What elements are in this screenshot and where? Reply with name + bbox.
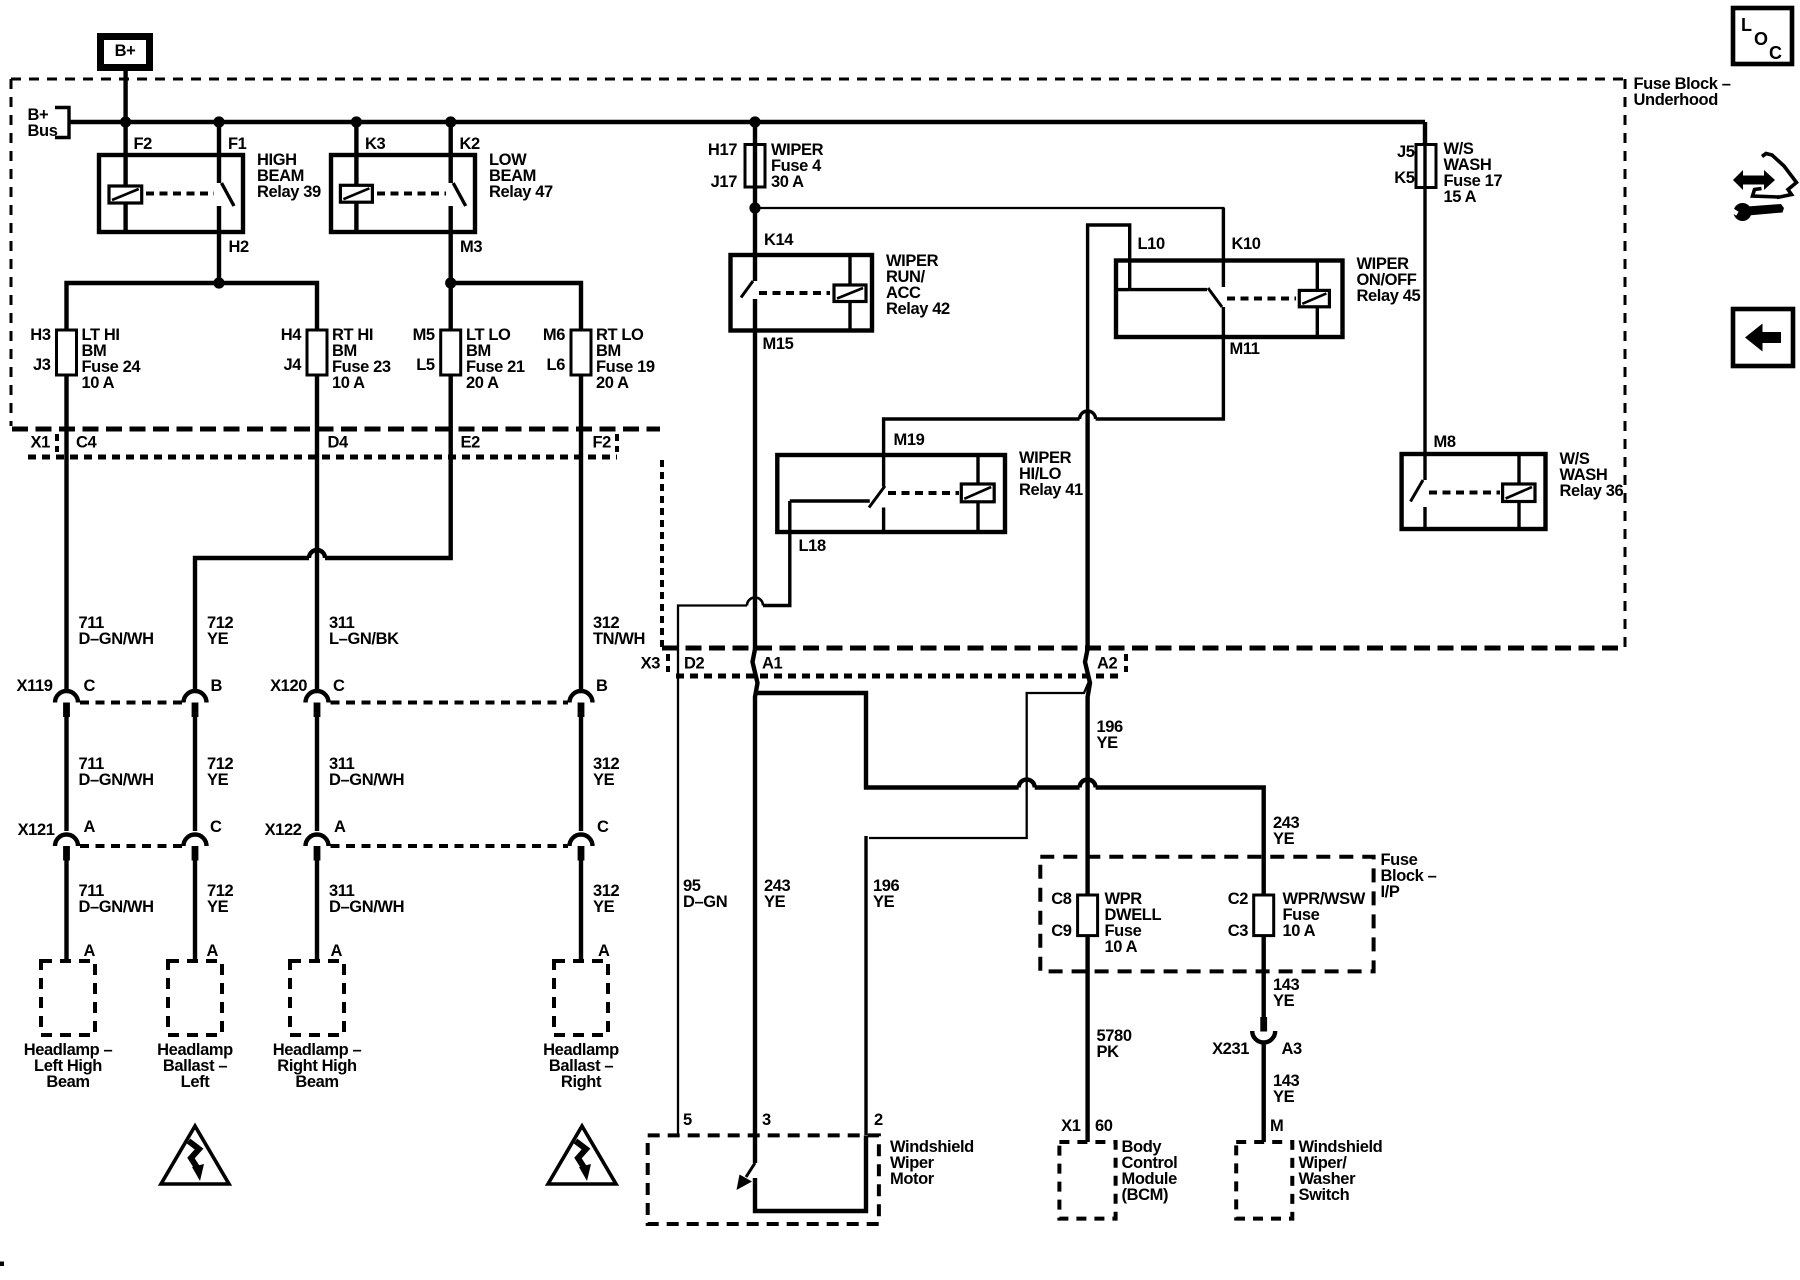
svg-text:J17: J17 <box>711 173 738 191</box>
wire 311 segment 3 <box>315 860 319 961</box>
svg-text:J3: J3 <box>33 356 51 374</box>
svg-text:YE: YE <box>764 893 786 911</box>
relay 41 lower contact stub <box>882 508 885 533</box>
svg-text:Relay 41: Relay 41 <box>1019 481 1083 499</box>
connector X3 row lower dashed line <box>676 674 1120 679</box>
svg-text:A: A <box>331 942 343 960</box>
svg-text:YE: YE <box>207 630 229 648</box>
svg-text:10 A: 10 A <box>332 374 365 392</box>
wire 143 YE (X231 to switch M) <box>1261 1041 1265 1142</box>
svg-text:B: B <box>596 677 608 695</box>
wire 712 segment 2 <box>193 717 197 832</box>
svg-text:C: C <box>333 677 345 695</box>
svg-text:YE: YE <box>1273 1088 1295 1106</box>
junction F2 on bus <box>120 116 131 127</box>
svg-text:D2: D2 <box>684 655 705 673</box>
junction F1 on bus <box>213 116 224 127</box>
svg-text:D–GN/WH: D–GN/WH <box>329 898 404 916</box>
svg-text:Beam: Beam <box>295 1073 338 1091</box>
svg-text:Relay 42: Relay 42 <box>886 300 950 318</box>
B+ bus bracket <box>55 108 69 138</box>
relay 45 coil <box>1316 261 1319 291</box>
relay 36 switch blade <box>1411 480 1424 502</box>
relay 36 coil-switch dashed link <box>1429 491 1500 495</box>
svg-text:O: O <box>1754 29 1768 49</box>
component Body Control Module (BCM) <box>1059 1142 1115 1219</box>
svg-text:M19: M19 <box>894 431 925 449</box>
junction M3 tee <box>445 277 456 288</box>
component Windshield Wiper Motor box <box>648 1135 879 1224</box>
svg-text:D–GN/WH: D–GN/WH <box>329 771 404 789</box>
wire A2 branch to wiper motor 2 <box>869 679 1090 838</box>
svg-text:YE: YE <box>873 893 895 911</box>
relay 36 lower contact stub <box>1423 507 1426 529</box>
wire 95 D-GN (D2 to wiper motor 5) <box>677 649 679 1135</box>
svg-text:Underhood: Underhood <box>1634 91 1718 109</box>
svg-text:10 A: 10 A <box>82 374 115 392</box>
fuse F4 WIPER <box>745 145 765 188</box>
wire 312 circuit column (F2 down) <box>579 375 583 691</box>
svg-text:F1: F1 <box>228 135 247 153</box>
svg-text:M3: M3 <box>460 238 482 256</box>
fuse WPR/WSW 10A <box>1254 895 1274 936</box>
svg-text:A1: A1 <box>762 655 783 673</box>
svg-text:M15: M15 <box>763 335 794 353</box>
relay 41 coil-switch dashed link <box>888 491 959 495</box>
junction wiper-fuse feed on bus <box>749 116 760 127</box>
svg-text:Switch: Switch <box>1299 1186 1350 1204</box>
wire 712 segment 3 <box>193 860 197 961</box>
svg-text:D–GN/WH: D–GN/WH <box>79 630 154 648</box>
connector X121 pin A <box>55 835 78 847</box>
svg-text:C9: C9 <box>1051 922 1072 940</box>
svg-text:K3: K3 <box>365 135 386 153</box>
svg-text:C: C <box>597 818 609 836</box>
svg-text:L–GN/BK: L–GN/BK <box>329 630 399 648</box>
B+ bus wire <box>69 120 1425 124</box>
svg-text:M6: M6 <box>543 326 565 344</box>
svg-text:H4: H4 <box>281 326 303 344</box>
wire A1 branch to WPR/WSW fuse <box>757 693 1019 788</box>
svg-text:X119: X119 <box>16 677 52 695</box>
relay 42 coil-switch dashed link <box>759 291 830 295</box>
wire L10 (relay 45 to A2 net) <box>1088 225 1130 412</box>
connector X119 dashed link <box>80 701 182 705</box>
svg-text:Relay 39: Relay 39 <box>257 183 321 201</box>
Fuse Block - I/P dashed border <box>1040 857 1373 972</box>
svg-text:X3: X3 <box>641 655 661 673</box>
wire B+ terminal to bus <box>123 71 127 122</box>
svg-text:J5: J5 <box>1397 143 1415 161</box>
relay 45 switch blade <box>1208 288 1222 307</box>
wire H2 (relay 39 to headlamp feed) <box>217 206 221 283</box>
wire 711 segment 3 <box>64 860 68 961</box>
wire H2 distribution (C4/D4 columns) <box>67 283 318 330</box>
relay U42 WIPER RUN/ACC box <box>731 255 873 331</box>
svg-text:TN/WH: TN/WH <box>593 630 645 648</box>
svg-text:F2: F2 <box>134 135 153 153</box>
svg-text:(BCM): (BCM) <box>1122 1186 1169 1204</box>
relay 41 coil <box>976 455 979 484</box>
connector X121 pin C <box>184 835 207 847</box>
svg-text:I/P: I/P <box>1381 883 1400 901</box>
svg-text:YE: YE <box>207 898 229 916</box>
fuse block border corner at X1 row <box>660 460 664 648</box>
wire 311 circuit column (D4 down) <box>315 375 319 691</box>
junction K3 on bus <box>351 116 362 127</box>
relay 39 switch blade <box>222 183 235 206</box>
relay 42 coil <box>848 255 851 285</box>
fuse F17 W/S WASH <box>1416 145 1436 188</box>
junction wiper fuse output <box>749 202 760 213</box>
Fuse Block - Underhood dashed border right <box>1624 79 1627 649</box>
svg-text:M5: M5 <box>413 326 435 344</box>
icon LOC box <box>1733 8 1792 64</box>
svg-text:A2: A2 <box>1097 655 1118 673</box>
battery positive terminal B+ <box>101 37 150 68</box>
relay 47 switch blade <box>453 183 466 206</box>
svg-text:E2: E2 <box>461 434 481 452</box>
relay U41 WIPER HI/LO box <box>777 455 1005 532</box>
wire 312 segment 2 <box>579 717 583 832</box>
svg-text:J4: J4 <box>283 356 302 374</box>
wire bus to W/S wash fuse <box>1423 122 1427 146</box>
relay 39 coil <box>109 186 142 203</box>
fuse WPR DWELL 10A <box>1078 895 1098 936</box>
fuse F23 RT HI BM <box>307 330 327 375</box>
svg-text:C8: C8 <box>1051 890 1072 908</box>
component Headlamp - Right High Beam <box>290 961 344 1035</box>
Fuse Block - Underhood dashed border top <box>11 78 1625 81</box>
fuse F21 LT LO BM <box>441 330 461 375</box>
svg-text:F2: F2 <box>593 434 612 452</box>
svg-text:X1: X1 <box>31 434 51 452</box>
component Headlamp Ballast - Right <box>554 961 608 1035</box>
wire 312 segment 3 <box>579 860 583 961</box>
svg-text:Relay 47: Relay 47 <box>489 183 553 201</box>
svg-text:D4: D4 <box>328 434 350 452</box>
component Windshield Wiper/Washer Switch <box>1236 1142 1292 1219</box>
connector X122 pin C <box>570 835 593 847</box>
connector X122 dashed link <box>331 844 569 848</box>
relay 47 coil <box>340 185 372 202</box>
svg-text:L: L <box>1741 15 1752 35</box>
svg-text:X1: X1 <box>1061 1117 1081 1135</box>
wire J17 to K10 (relay 45 feed) <box>755 208 1223 261</box>
component Headlamp Ballast - Left <box>168 961 222 1035</box>
svg-text:X231: X231 <box>1212 1040 1249 1058</box>
connector X3 row upper dashed line <box>662 646 1625 651</box>
svg-text:Bus: Bus <box>28 122 58 140</box>
svg-text:K2: K2 <box>460 135 481 153</box>
svg-text:C: C <box>1769 43 1782 63</box>
svg-text:C: C <box>84 677 96 695</box>
svg-text:C3: C3 <box>1228 922 1249 940</box>
wire 711 segment 2 <box>64 717 68 832</box>
svg-text:YE: YE <box>1273 992 1295 1010</box>
wire M3 (relay 47 to headlamp feed) <box>449 206 453 330</box>
wire K3 (bus to relay 47 coil) <box>354 122 358 185</box>
icon back arrow box <box>1733 309 1793 366</box>
wire 5780 PK (to BCM) <box>1085 936 1089 1142</box>
svg-text:C2: C2 <box>1228 890 1249 908</box>
svg-text:X120: X120 <box>270 677 307 695</box>
wire K2 (bus to relay 47 switch) <box>449 122 453 183</box>
svg-text:K14: K14 <box>764 231 794 249</box>
wire 143 YE (fuse C3 down) <box>1261 936 1265 1017</box>
connector X121 dashed link <box>80 844 182 848</box>
svg-text:20 A: 20 A <box>466 374 499 392</box>
svg-text:L10: L10 <box>1138 235 1165 253</box>
svg-text:PK: PK <box>1097 1043 1120 1061</box>
svg-text:L18: L18 <box>799 537 826 555</box>
wire K10 inside relay <box>1222 208 1225 287</box>
svg-text:A3: A3 <box>1282 1040 1303 1058</box>
wire E2 to 712 jog <box>325 375 451 558</box>
svg-text:D–GN/WH: D–GN/WH <box>79 898 154 916</box>
connector X231 female arc <box>1252 1031 1275 1043</box>
svg-text:3: 3 <box>762 1111 771 1129</box>
relay 47 coil-switch dashed link <box>377 192 446 196</box>
svg-text:YE: YE <box>593 898 615 916</box>
svg-text:D–GN: D–GN <box>683 893 727 911</box>
wire 311 segment 2 <box>315 717 319 832</box>
junction H2 tee <box>213 277 224 288</box>
wire M19 inside relay <box>882 455 885 487</box>
wire M11 to M19 <box>1096 307 1224 419</box>
fuse F24 LT HI BM <box>57 330 77 375</box>
wire 711 circuit column (C4 down) <box>64 375 68 691</box>
svg-text:10 A: 10 A <box>1105 938 1138 956</box>
svg-text:X121: X121 <box>18 821 55 839</box>
relay 39 coil-switch dashed link <box>146 192 214 196</box>
wire M15 to X3-A1 <box>753 299 757 649</box>
wire wiper fuse feed <box>753 122 757 281</box>
svg-text:M: M <box>1270 1117 1283 1135</box>
page border remnant mark <box>0 1262 4 1267</box>
svg-text:Left: Left <box>181 1073 211 1091</box>
svg-text:30 A: 30 A <box>771 173 804 191</box>
svg-text:H2: H2 <box>229 238 250 256</box>
connector X122 pin A <box>306 835 329 847</box>
svg-text:B+: B+ <box>115 42 136 60</box>
junction K2 on bus <box>445 116 456 127</box>
connector X231 male pin <box>1260 1017 1267 1032</box>
warning triangle right <box>548 1126 616 1184</box>
svg-text:YE: YE <box>207 771 229 789</box>
svg-text:X122: X122 <box>265 821 302 839</box>
svg-text:K10: K10 <box>1232 235 1261 253</box>
relay 41 L18 contact rail <box>790 499 870 502</box>
connector X120 pin C <box>306 691 329 703</box>
svg-text:C: C <box>210 818 222 836</box>
svg-text:YE: YE <box>1097 734 1119 752</box>
icon service manual (arrows and wrench) <box>1733 170 1775 190</box>
connector X120 dashed link <box>331 701 569 705</box>
svg-text:Right: Right <box>561 1073 602 1091</box>
fuse F19 RT LO BM <box>571 330 591 375</box>
svg-text:60: 60 <box>1095 1117 1113 1135</box>
svg-text:YE: YE <box>593 771 615 789</box>
svg-text:2: 2 <box>874 1111 883 1129</box>
relay U47 LOW BEAM box <box>331 155 475 232</box>
svg-text:C4: C4 <box>76 434 98 452</box>
svg-text:H3: H3 <box>30 326 51 344</box>
svg-text:H17: H17 <box>708 141 737 159</box>
svg-text:A: A <box>84 818 96 836</box>
svg-text:A: A <box>334 818 346 836</box>
svg-text:A: A <box>598 942 610 960</box>
svg-text:YE: YE <box>1273 830 1295 848</box>
wire F1 (bus to relay 39 switch) <box>217 122 221 183</box>
relay 45 L10 contact rail <box>1130 288 1207 291</box>
svg-text:Beam: Beam <box>46 1073 89 1091</box>
relay U45 WIPER ON/OFF box <box>1116 261 1343 338</box>
connector X120 pin B <box>570 691 593 703</box>
svg-text:M8: M8 <box>1434 433 1456 451</box>
connector X119 pin B <box>184 691 207 703</box>
wire L18 to X3-D2 (95 D-GN) <box>763 501 790 606</box>
wire F2 (bus to relay 39 coil) <box>123 122 127 186</box>
Fuse Block - Underhood dashed border left <box>10 79 13 426</box>
svg-text:5: 5 <box>683 1111 692 1129</box>
svg-text:Relay 36: Relay 36 <box>1560 482 1624 500</box>
wire 196 YE (A2 net down) <box>1085 412 1090 895</box>
relay 45 coil-switch dashed link <box>1227 297 1296 301</box>
component Headlamp - Left High Beam <box>41 961 95 1035</box>
relay 42 switch blade <box>741 281 753 298</box>
connector X1 row lower dashed line <box>28 455 617 460</box>
svg-text:Motor: Motor <box>890 1170 935 1188</box>
warning triangle left <box>161 1126 229 1184</box>
relay U39 HIGH BEAM box <box>99 155 243 232</box>
wiper motor internal switch <box>746 1163 755 1177</box>
svg-text:D–GN/WH: D–GN/WH <box>79 771 154 789</box>
svg-text:B: B <box>211 677 223 695</box>
relay U36 W/S WASH box <box>1402 454 1546 529</box>
relay 36 coil <box>1517 454 1520 484</box>
svg-text:A: A <box>84 942 96 960</box>
svg-text:L6: L6 <box>547 356 566 374</box>
wire 243 YE (A1 to wiper motor 3) <box>753 649 758 1163</box>
svg-text:20 A: 20 A <box>596 374 629 392</box>
connector X1 row upper dashed line <box>12 427 660 432</box>
svg-text:Relay 45: Relay 45 <box>1357 287 1421 305</box>
svg-text:K5: K5 <box>1394 169 1415 187</box>
svg-text:A: A <box>207 942 219 960</box>
svg-text:15 A: 15 A <box>1444 188 1477 206</box>
svg-text:10 A: 10 A <box>1283 922 1316 940</box>
svg-text:M11: M11 <box>1230 340 1260 358</box>
svg-text:L5: L5 <box>416 356 435 374</box>
wire M3 branch to F2 column <box>451 283 581 330</box>
connector X119 pin C <box>55 691 78 703</box>
relay 41 switch blade <box>869 486 885 508</box>
